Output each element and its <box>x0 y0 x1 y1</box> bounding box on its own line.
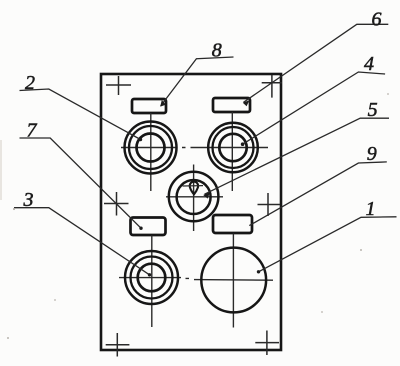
centerline vertical top-left hole <box>150 113 152 191</box>
slot top-right <box>213 98 250 112</box>
slot bottom-right <box>213 215 252 233</box>
slot bottom-left <box>131 218 166 236</box>
registration cross middle-left <box>104 192 129 216</box>
hole bottom-left middle circle <box>131 257 173 299</box>
svg-text:3: 3 <box>23 189 34 211</box>
callout 5 arrowhead <box>203 192 210 199</box>
hole top-left middle circle <box>129 126 172 169</box>
callout 4 leader <box>243 72 386 144</box>
hole center outer circle <box>169 172 219 222</box>
callout 1 end dot <box>257 270 260 273</box>
callout 4 end dot <box>241 142 245 146</box>
hole top-right inner circle <box>219 134 246 161</box>
registration cross bottom-right <box>255 331 279 356</box>
callout 2 end dot <box>139 138 142 141</box>
callout 6 arrowhead <box>243 100 250 106</box>
hole bottom-left inner circle <box>138 264 166 292</box>
hole bottom-right circle <box>201 248 266 313</box>
registration cross bottom-left <box>106 333 130 357</box>
hole top-left outer circle <box>125 122 177 174</box>
callout 3 leader <box>14 208 150 275</box>
centerline vertical top-right hole <box>231 112 233 191</box>
plate outline <box>101 74 281 350</box>
callout 9 leader <box>249 162 386 226</box>
hole bottom-left outer circle <box>125 251 178 304</box>
registration cross middle-right <box>258 193 281 216</box>
centerline horizontal bottom row <box>119 278 273 281</box>
short line through teardrop <box>183 185 204 187</box>
svg-text:1: 1 <box>366 198 376 220</box>
centerline vertical bottom-left hole <box>151 236 153 328</box>
registration cross top-right <box>262 75 282 98</box>
callout 6 leader <box>244 24 389 102</box>
centerline horizontal top row <box>121 147 268 149</box>
callout 7 end dot <box>139 227 142 230</box>
callout 8 arrowhead <box>160 100 166 107</box>
svg-text:8: 8 <box>212 40 222 62</box>
callout 5 leader <box>205 118 390 194</box>
callout 1 leader <box>259 217 397 272</box>
registration cross top-left <box>106 76 131 95</box>
callout 3 end dot <box>148 273 151 276</box>
svg-text:7: 7 <box>27 120 38 142</box>
teardrop pin mark in center hole <box>190 182 198 195</box>
svg-text:6: 6 <box>372 9 382 31</box>
callout 2 leader <box>20 89 141 140</box>
centerline vertical bottom-right hole <box>232 234 234 328</box>
hole top-right outer circle <box>208 123 258 173</box>
svg-text:4: 4 <box>364 53 374 75</box>
centerline horizontal center hole <box>166 196 223 198</box>
svg-text:5: 5 <box>368 99 378 121</box>
slot top-left <box>132 99 166 113</box>
hole top-left inner circle <box>137 134 165 162</box>
centerline vertical center hole <box>193 165 195 232</box>
hole center inner circle <box>177 180 211 214</box>
hole top-right middle circle <box>213 127 254 168</box>
svg-text:2: 2 <box>25 72 35 94</box>
svg-text:9: 9 <box>367 143 377 165</box>
callout 7 leader <box>20 138 142 228</box>
callout 8 leader <box>161 57 234 106</box>
